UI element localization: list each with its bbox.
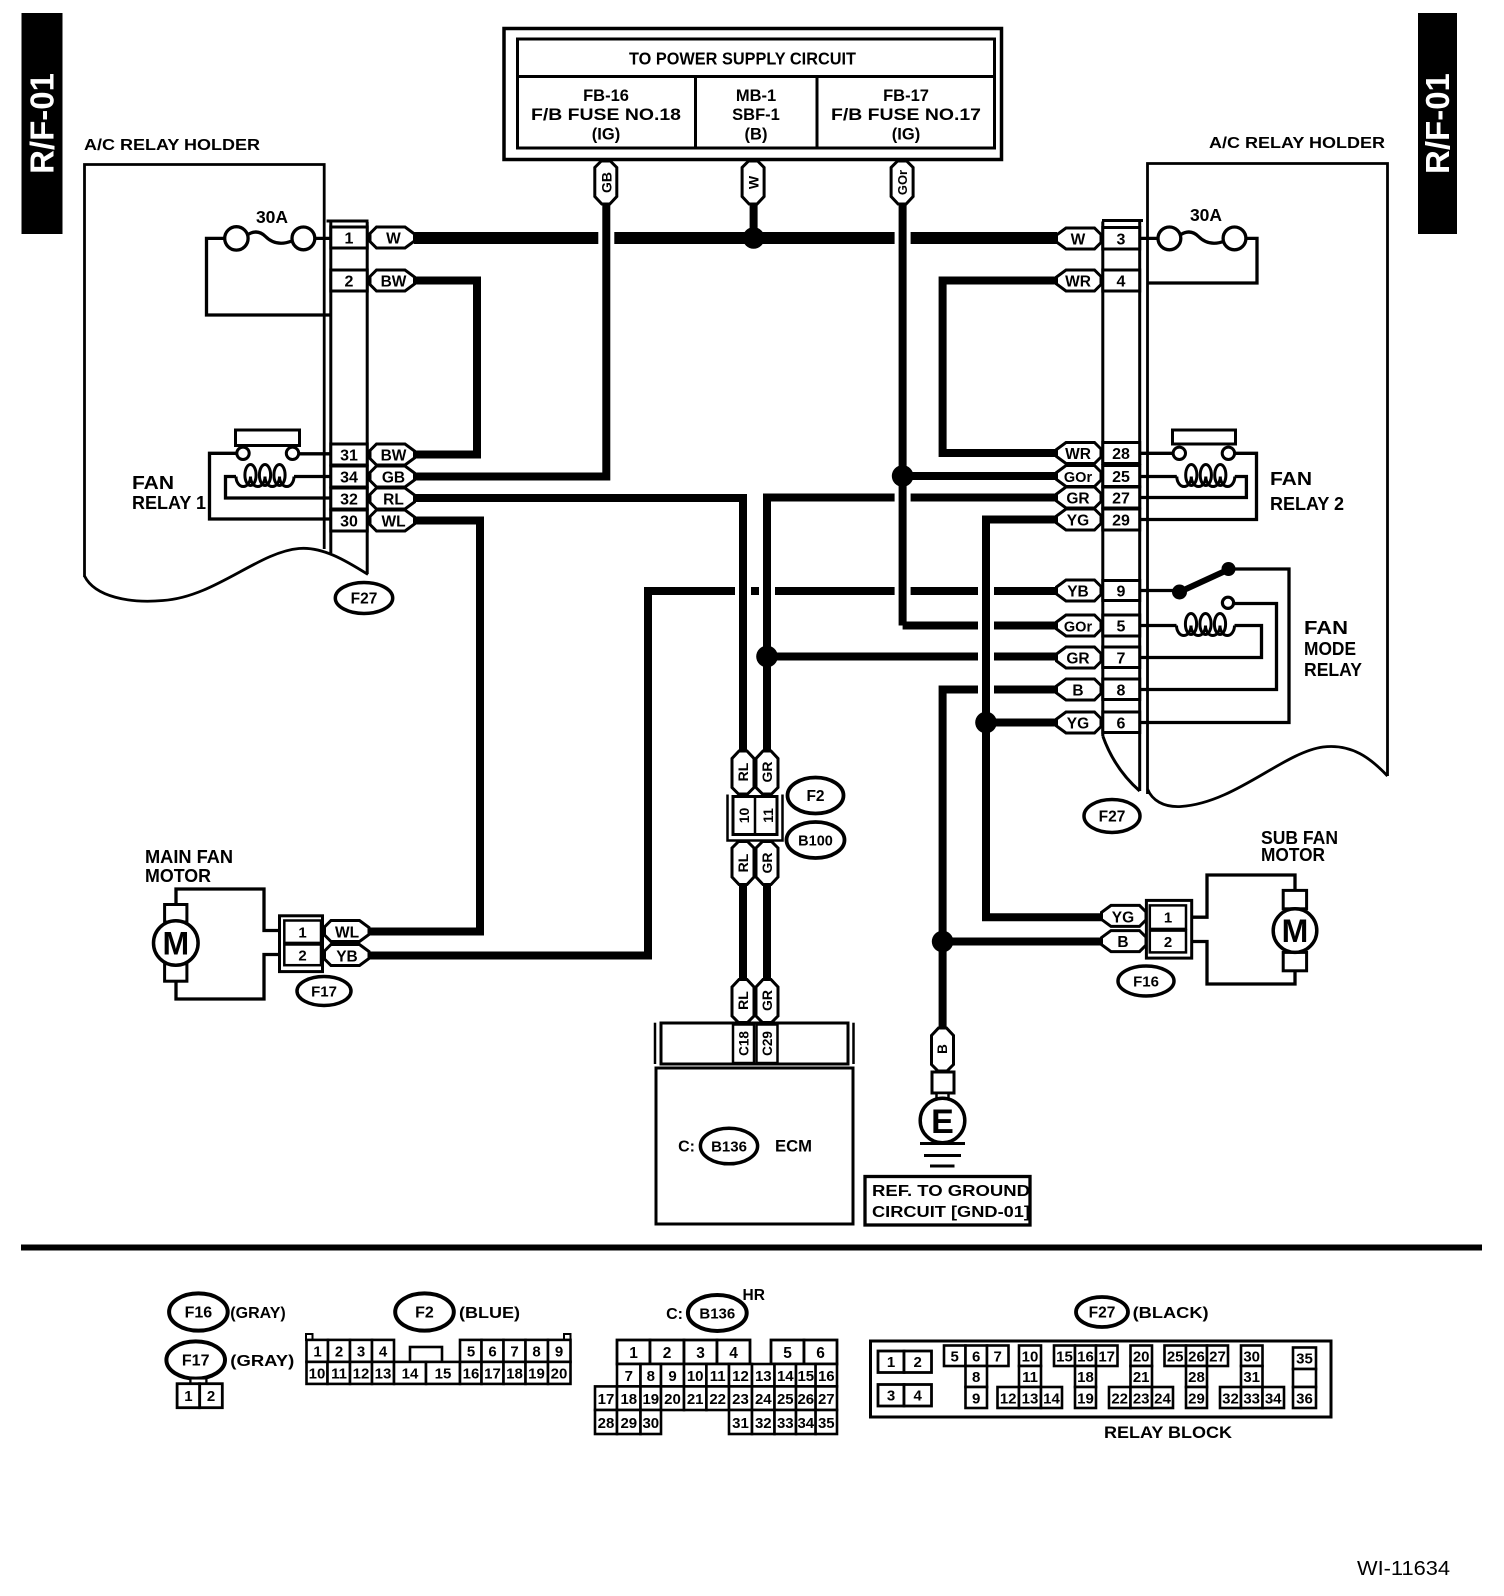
svg-text:SBF-1: SBF-1 xyxy=(732,106,780,124)
terminal BW pin 2 left xyxy=(370,270,415,291)
wire B pin8 to ground, hop over YG xyxy=(943,690,1057,1030)
svg-text:15: 15 xyxy=(435,1366,452,1383)
main fan motor M circle xyxy=(154,921,199,966)
right strip pin 6 cell xyxy=(1103,712,1140,733)
svg-text:F16: F16 xyxy=(185,1305,213,1322)
svg-text:9: 9 xyxy=(972,1391,980,1408)
connector strip F27 left rails xyxy=(327,221,369,574)
right strip pin 5 cell xyxy=(1103,615,1140,636)
svg-text:F/B FUSE NO.17: F/B FUSE NO.17 xyxy=(831,106,981,124)
junction dot GOr pin25 xyxy=(892,465,914,487)
power supply circuit box xyxy=(504,29,1002,160)
svg-text:B136: B136 xyxy=(699,1306,735,1323)
page tab R/F-01 right xyxy=(1418,13,1457,234)
svg-text:14: 14 xyxy=(1043,1391,1060,1408)
fuse 30A right leads xyxy=(1139,232,1257,283)
svg-text:27: 27 xyxy=(1112,491,1130,508)
fan relay 1 contact circles xyxy=(237,447,299,459)
relay block pins 30-34 group xyxy=(1220,1346,1284,1409)
svg-text:12: 12 xyxy=(732,1368,749,1385)
svg-text:RELAY 1: RELAY 1 xyxy=(132,493,206,513)
connector label F17 (GRAY) xyxy=(166,1341,294,1378)
right strip pin 3 cell xyxy=(1103,228,1140,250)
sub fan motor terminal blocks xyxy=(1283,890,1306,970)
svg-text:20: 20 xyxy=(551,1366,568,1383)
svg-text:GOr: GOr xyxy=(1064,620,1093,636)
terminal BW pin 31 left xyxy=(370,444,415,465)
sub fan terminal YG pin1 xyxy=(1102,905,1147,926)
fan relay 1 armature bar xyxy=(236,430,300,446)
svg-text:(B): (B) xyxy=(745,126,768,144)
wire GR branch to pin 7, hop over YG xyxy=(767,653,1057,661)
svg-text:REF. TO GROUND: REF. TO GROUND xyxy=(872,1183,1030,1200)
ref to ground circuit note box xyxy=(865,1177,1030,1226)
terminal GOr (from FB-17) xyxy=(891,161,913,204)
junction dot GR pin7 xyxy=(756,646,778,668)
wire RL pin32 down to connector F2 xyxy=(414,498,743,752)
svg-text:18: 18 xyxy=(1077,1369,1094,1386)
junction dot W bus xyxy=(743,227,765,249)
fan mode relay fixed contact wire to pin8 xyxy=(1141,604,1277,690)
ECM pin C18 cell xyxy=(733,1025,754,1064)
svg-text:R/F-01: R/F-01 xyxy=(1419,73,1456,174)
svg-text:4: 4 xyxy=(914,1388,923,1405)
terminal W (from MB-1 SBF-1) xyxy=(742,161,764,204)
connector B136 pin grid row 28-35 xyxy=(595,1410,837,1434)
svg-text:7: 7 xyxy=(625,1368,633,1385)
ground hatch lines xyxy=(920,1144,965,1167)
svg-text:FAN: FAN xyxy=(132,473,174,493)
svg-text:RL: RL xyxy=(735,762,751,781)
wire GOr branch to pin 25 xyxy=(903,472,1057,480)
fuse 30A left element circles xyxy=(225,227,315,250)
svg-text:FB-16: FB-16 xyxy=(583,87,629,105)
main fan terminal WL pin1 xyxy=(325,921,370,942)
right strip pin 25 cell xyxy=(1103,466,1140,487)
svg-text:13: 13 xyxy=(755,1368,772,1385)
main fan terminal YB pin2 xyxy=(325,945,370,966)
connector B136 pin grid row 1-6 xyxy=(617,1340,837,1364)
ground connector square xyxy=(932,1072,954,1093)
svg-text:1: 1 xyxy=(184,1388,192,1405)
svg-text:WL: WL xyxy=(335,925,359,942)
right strip pin 9 cell xyxy=(1103,581,1140,601)
ground wire terminal B xyxy=(932,1028,954,1071)
svg-text:2: 2 xyxy=(1164,934,1172,951)
svg-text:4: 4 xyxy=(379,1344,388,1361)
svg-text:15: 15 xyxy=(1056,1349,1073,1366)
svg-text:YG: YG xyxy=(1067,513,1089,530)
svg-text:23: 23 xyxy=(1133,1391,1150,1408)
terminal GB (from FB-16) xyxy=(595,161,617,204)
svg-text:3: 3 xyxy=(887,1388,895,1405)
svg-text:11: 11 xyxy=(1022,1369,1038,1386)
svg-text:1: 1 xyxy=(298,925,306,942)
svg-text:14: 14 xyxy=(402,1366,419,1383)
svg-text:F27: F27 xyxy=(351,591,378,608)
junction dot B sub fan xyxy=(932,931,954,953)
main fan connector F17 body xyxy=(280,916,323,972)
svg-text:28: 28 xyxy=(598,1415,615,1432)
fan mode relay switch blade xyxy=(1180,570,1229,593)
svg-text:RELAY: RELAY xyxy=(1304,660,1362,680)
fan relay 2 coil leads xyxy=(1141,477,1246,498)
ground neck xyxy=(937,1093,949,1100)
svg-text:3: 3 xyxy=(357,1344,365,1361)
svg-text:24: 24 xyxy=(755,1391,772,1408)
terminal W pin 1 left xyxy=(370,227,415,248)
svg-text:20: 20 xyxy=(664,1391,681,1408)
fuse 30A left leads xyxy=(207,232,332,315)
svg-text:4: 4 xyxy=(1117,274,1126,291)
wire YB main fan pin2 to pin 9, hops over RL GR GOr YG xyxy=(368,591,1057,956)
svg-text:GR: GR xyxy=(759,853,775,874)
svg-text:10: 10 xyxy=(736,808,752,824)
relay block pins 15-19 group xyxy=(1054,1346,1118,1409)
svg-text:5: 5 xyxy=(951,1349,959,1366)
svg-text:25: 25 xyxy=(1167,1349,1184,1366)
svg-text:4: 4 xyxy=(729,1345,738,1362)
svg-text:9: 9 xyxy=(668,1368,676,1385)
svg-text:34: 34 xyxy=(797,1415,814,1432)
ECM terminal GR xyxy=(756,980,778,1023)
svg-text:2: 2 xyxy=(335,1344,343,1361)
svg-text:6: 6 xyxy=(816,1345,825,1362)
wire GR pin27 down to connector F2, hop over GOr xyxy=(767,498,1057,753)
svg-text:35: 35 xyxy=(1296,1351,1313,1368)
svg-text:(GRAY): (GRAY) xyxy=(230,1305,285,1322)
main fan motor terminal blocks xyxy=(165,905,187,982)
svg-text:1: 1 xyxy=(313,1344,321,1361)
fan mode relay coil xyxy=(1177,614,1235,636)
relay block pins 20-24 group xyxy=(1109,1346,1173,1409)
svg-text:11: 11 xyxy=(760,808,776,823)
svg-text:9: 9 xyxy=(1117,584,1126,601)
connector label F17 ellipse xyxy=(297,977,351,1006)
svg-text:ECM: ECM xyxy=(775,1137,812,1156)
left strip pin 1 cell xyxy=(331,227,367,248)
svg-text:32: 32 xyxy=(755,1415,772,1432)
fan relay 1 coil xyxy=(236,465,294,487)
connector strip F27 right rails xyxy=(1102,221,1143,792)
svg-text:1: 1 xyxy=(887,1354,895,1371)
svg-text:WR: WR xyxy=(1065,274,1091,291)
svg-text:33: 33 xyxy=(1243,1391,1260,1408)
svg-text:RL: RL xyxy=(735,853,751,872)
svg-text:10: 10 xyxy=(687,1368,704,1385)
svg-text:2: 2 xyxy=(298,948,306,965)
svg-text:A/C RELAY HOLDER: A/C RELAY HOLDER xyxy=(84,137,260,154)
connector label F27 (BLACK) xyxy=(1076,1297,1209,1327)
svg-text:28: 28 xyxy=(1112,446,1130,463)
connector label F16 ellipse xyxy=(1118,966,1174,996)
svg-text:RL: RL xyxy=(735,991,751,1010)
terminal B pin 8 right xyxy=(1057,679,1102,700)
right strip pin 4 cell xyxy=(1103,270,1140,291)
separator line xyxy=(21,1245,1482,1251)
svg-text:F16: F16 xyxy=(1133,974,1159,991)
svg-text:29: 29 xyxy=(1112,513,1130,530)
svg-text:30A: 30A xyxy=(1190,205,1222,225)
svg-text:32: 32 xyxy=(340,492,358,509)
wire WL pin30 to main fan pin1 xyxy=(368,521,480,932)
right strip pin 7 cell xyxy=(1103,647,1140,668)
svg-text:30A: 30A xyxy=(256,207,288,227)
svg-text:13: 13 xyxy=(375,1366,392,1383)
svg-text:HR: HR xyxy=(743,1287,765,1304)
svg-text:B100: B100 xyxy=(798,834,833,850)
sub fan motor loop wires xyxy=(1191,875,1295,984)
page tab R/F-01 left xyxy=(22,13,63,234)
svg-text:33: 33 xyxy=(777,1415,794,1432)
svg-text:31: 31 xyxy=(1243,1369,1260,1386)
svg-text:GB: GB xyxy=(598,172,614,193)
svg-text:32: 32 xyxy=(1222,1391,1239,1408)
svg-text:21: 21 xyxy=(687,1391,704,1408)
terminal YG pin 29 right xyxy=(1057,509,1102,530)
terminal GR pin 7 right xyxy=(1057,647,1102,668)
right strip pin 8 cell xyxy=(1103,679,1140,700)
svg-text:16: 16 xyxy=(463,1366,480,1383)
relay block pins 35-36 column xyxy=(1293,1348,1316,1409)
connector label B100 ellipse xyxy=(787,822,845,858)
connector F2 pin grid rows 1-9 and 10-20 xyxy=(306,1334,571,1384)
sub fan motor M circle xyxy=(1273,909,1317,953)
svg-text:B: B xyxy=(1117,934,1128,951)
terminal GB pin 34 left xyxy=(370,466,415,487)
svg-text:GB: GB xyxy=(382,470,405,487)
terminal RL pin 32 left xyxy=(370,488,415,509)
svg-text:YB: YB xyxy=(336,949,358,966)
svg-text:18: 18 xyxy=(620,1391,637,1408)
svg-text:(BLUE): (BLUE) xyxy=(459,1305,520,1322)
terminal WL pin 30 left xyxy=(370,510,415,531)
fan relay 2 armature bar xyxy=(1173,430,1236,444)
svg-text:YG: YG xyxy=(1112,910,1134,927)
svg-text:27: 27 xyxy=(1209,1349,1226,1366)
svg-text:14: 14 xyxy=(777,1368,794,1385)
svg-text:F17: F17 xyxy=(182,1353,210,1370)
ECM box xyxy=(656,1068,853,1224)
svg-text:25: 25 xyxy=(1112,469,1130,486)
left strip pin 2 cell xyxy=(331,270,367,291)
svg-text:16: 16 xyxy=(818,1368,835,1385)
svg-text:FAN: FAN xyxy=(1304,618,1348,638)
svg-text:5: 5 xyxy=(783,1345,792,1362)
svg-text:3: 3 xyxy=(1117,232,1126,249)
svg-text:25: 25 xyxy=(777,1391,794,1408)
A/C relay holder box right (with torn wavy bottom) xyxy=(1148,164,1388,807)
right strip pin 27 cell xyxy=(1103,487,1140,508)
connector label C: B136 HR xyxy=(666,1287,765,1331)
svg-text:6: 6 xyxy=(972,1349,980,1366)
wire GB from fuse FB-16 to pin 34 xyxy=(414,203,606,477)
svg-text:F2: F2 xyxy=(415,1305,434,1322)
ECM connector bar with side ticks xyxy=(655,1023,854,1064)
svg-text:27: 27 xyxy=(818,1391,835,1408)
svg-text:W: W xyxy=(386,231,401,248)
fan mode relay blade output wire to pin6 xyxy=(1141,569,1289,723)
svg-text:2: 2 xyxy=(914,1354,922,1371)
svg-text:YG: YG xyxy=(1067,716,1089,733)
connector label F16 (GRAY) xyxy=(169,1293,286,1330)
svg-text:11: 11 xyxy=(331,1366,347,1383)
connector label F27 left ellipse xyxy=(335,583,392,614)
svg-text:12: 12 xyxy=(353,1366,370,1383)
connector B136 pin numbers xyxy=(629,1345,825,1362)
relay block pin numbers xyxy=(887,1349,1313,1408)
junction dot YG pin6 xyxy=(975,712,997,734)
svg-text:3: 3 xyxy=(696,1345,705,1362)
svg-text:WL: WL xyxy=(381,514,405,531)
svg-text:6: 6 xyxy=(488,1344,496,1361)
svg-text:M: M xyxy=(162,926,189,962)
svg-text:C:: C: xyxy=(666,1306,683,1323)
svg-text:(IG): (IG) xyxy=(892,126,920,144)
terminal WR pin 4 right xyxy=(1057,270,1102,291)
svg-text:(IG): (IG) xyxy=(592,126,620,144)
right strip pin 28 cell xyxy=(1103,443,1140,464)
svg-text:19: 19 xyxy=(528,1366,545,1383)
wire YG branch to pin 6 terminal xyxy=(986,719,1057,727)
fan mode relay switch pivot dot xyxy=(1172,585,1187,600)
main fan motor loop wires xyxy=(176,889,280,999)
svg-text:MAIN FAN: MAIN FAN xyxy=(145,847,233,867)
svg-text:28: 28 xyxy=(1188,1369,1205,1386)
svg-text:10: 10 xyxy=(309,1366,326,1383)
svg-text:20: 20 xyxy=(1133,1349,1150,1366)
svg-text:30: 30 xyxy=(642,1415,659,1432)
fan relay 1 coil leads xyxy=(226,477,332,499)
svg-text:C29: C29 xyxy=(760,1031,775,1056)
svg-text:E: E xyxy=(931,1103,954,1141)
svg-text:8: 8 xyxy=(647,1368,655,1385)
svg-text:WR: WR xyxy=(1065,446,1091,463)
svg-text:GR: GR xyxy=(759,762,775,783)
svg-text:31: 31 xyxy=(732,1415,749,1432)
relay block pins 5-9 group xyxy=(944,1346,1009,1409)
svg-text:22: 22 xyxy=(709,1391,726,1408)
label C: B136 ECM xyxy=(678,1128,812,1164)
left strip pin 32 cell xyxy=(331,488,367,509)
svg-text:17: 17 xyxy=(1098,1349,1115,1366)
svg-text:RELAY 2: RELAY 2 xyxy=(1270,494,1344,514)
svg-text:MB-1: MB-1 xyxy=(736,87,776,105)
svg-text:C:: C: xyxy=(678,1139,695,1156)
svg-text:RL: RL xyxy=(383,492,404,509)
ECM pin C29 cell xyxy=(757,1025,778,1064)
svg-text:(BLACK): (BLACK) xyxy=(1133,1305,1209,1322)
svg-text:17: 17 xyxy=(598,1391,615,1408)
svg-text:23: 23 xyxy=(732,1391,749,1408)
relay block pins 10-14 group xyxy=(998,1346,1063,1409)
svg-text:21: 21 xyxy=(1133,1369,1150,1386)
terminal WR pin 28 right xyxy=(1057,443,1102,464)
svg-text:CIRCUIT [GND-01]: CIRCUIT [GND-01] xyxy=(872,1204,1030,1221)
svg-text:2: 2 xyxy=(345,274,354,291)
connector F2/B100 upper terminal GR xyxy=(756,751,778,794)
ground symbol E circle xyxy=(920,1098,965,1143)
terminal GOr pin 25 right xyxy=(1057,466,1102,487)
svg-text:11: 11 xyxy=(710,1368,726,1385)
svg-text:B: B xyxy=(1072,683,1083,700)
svg-text:17: 17 xyxy=(484,1366,501,1383)
svg-text:26: 26 xyxy=(1188,1349,1205,1366)
svg-text:YB: YB xyxy=(1067,584,1089,601)
fan mode relay pin9 wire to switch xyxy=(1141,589,1174,592)
wire B branch to sub fan pin2 xyxy=(943,938,1103,946)
connector F2/B100 body bracket xyxy=(728,795,783,841)
svg-text:22: 22 xyxy=(1111,1391,1128,1408)
svg-text:35: 35 xyxy=(818,1415,835,1432)
svg-text:34: 34 xyxy=(1265,1391,1282,1408)
svg-text:F2: F2 xyxy=(806,788,824,805)
left strip pin 34 cell xyxy=(331,466,367,487)
terminal GOr pin 5 right xyxy=(1057,615,1102,636)
svg-text:F17: F17 xyxy=(311,984,337,1001)
svg-text:2: 2 xyxy=(207,1388,215,1405)
svg-text:TO POWER SUPPLY CIRCUIT: TO POWER SUPPLY CIRCUIT xyxy=(629,49,856,69)
svg-text:16: 16 xyxy=(1077,1349,1094,1366)
svg-text:7: 7 xyxy=(994,1349,1002,1366)
ECM terminal RL xyxy=(732,980,754,1023)
fan relay 2 coil xyxy=(1177,465,1235,487)
svg-text:BW: BW xyxy=(381,448,407,465)
svg-text:29: 29 xyxy=(620,1415,637,1432)
svg-text:34: 34 xyxy=(340,470,358,487)
svg-text:19: 19 xyxy=(1077,1391,1094,1408)
svg-text:1: 1 xyxy=(1164,910,1172,927)
wire W main bus (pin1 to pin3 via SBF-1), hops over GB and GOr xyxy=(414,232,1057,244)
relay block pins 25-29 group xyxy=(1165,1346,1229,1409)
svg-text:WI-11634: WI-11634 xyxy=(1357,1558,1450,1580)
svg-text:MODE: MODE xyxy=(1304,639,1356,659)
svg-text:18: 18 xyxy=(506,1366,523,1383)
svg-text:FAN: FAN xyxy=(1270,469,1312,489)
svg-text:GR: GR xyxy=(1066,651,1089,668)
connector F16/F17 pin grid 1 2 xyxy=(177,1378,222,1407)
connector B136 pin grid row 7-16 xyxy=(617,1364,837,1386)
connector F2/B100 cells 10 and 11 xyxy=(733,797,777,835)
svg-text:6: 6 xyxy=(1117,716,1126,733)
svg-text:26: 26 xyxy=(797,1391,814,1408)
svg-text:8: 8 xyxy=(1117,683,1126,700)
connector label F2 ellipse xyxy=(788,778,844,814)
wire WR loop pin4 to pin28 xyxy=(943,281,1057,454)
sub fan terminal B pin2 xyxy=(1102,931,1147,952)
terminal GR pin 27 right xyxy=(1057,487,1102,508)
svg-text:A/C RELAY HOLDER: A/C RELAY HOLDER xyxy=(1209,135,1385,152)
svg-text:7: 7 xyxy=(1117,651,1126,668)
connector F2/B100 lower terminal RL xyxy=(732,842,754,885)
svg-text:1: 1 xyxy=(629,1345,638,1362)
svg-text:GR: GR xyxy=(1066,491,1089,508)
fan relay 2 contact circles xyxy=(1173,447,1235,459)
svg-text:MOTOR: MOTOR xyxy=(1261,845,1325,865)
left strip pin 31 cell xyxy=(331,444,367,465)
left strip pin 30 cell xyxy=(331,510,367,531)
svg-text:7: 7 xyxy=(510,1344,518,1361)
svg-text:B: B xyxy=(935,1044,950,1054)
svg-text:5: 5 xyxy=(1117,619,1126,636)
svg-text:30: 30 xyxy=(1243,1349,1260,1366)
connector F2/B100 upper terminal RL xyxy=(732,751,754,794)
svg-text:29: 29 xyxy=(1188,1391,1205,1408)
svg-text:B136: B136 xyxy=(711,1139,747,1156)
svg-text:12: 12 xyxy=(1000,1391,1017,1408)
svg-text:GOr: GOr xyxy=(895,170,910,195)
fuse 30A right element circles xyxy=(1158,227,1246,250)
